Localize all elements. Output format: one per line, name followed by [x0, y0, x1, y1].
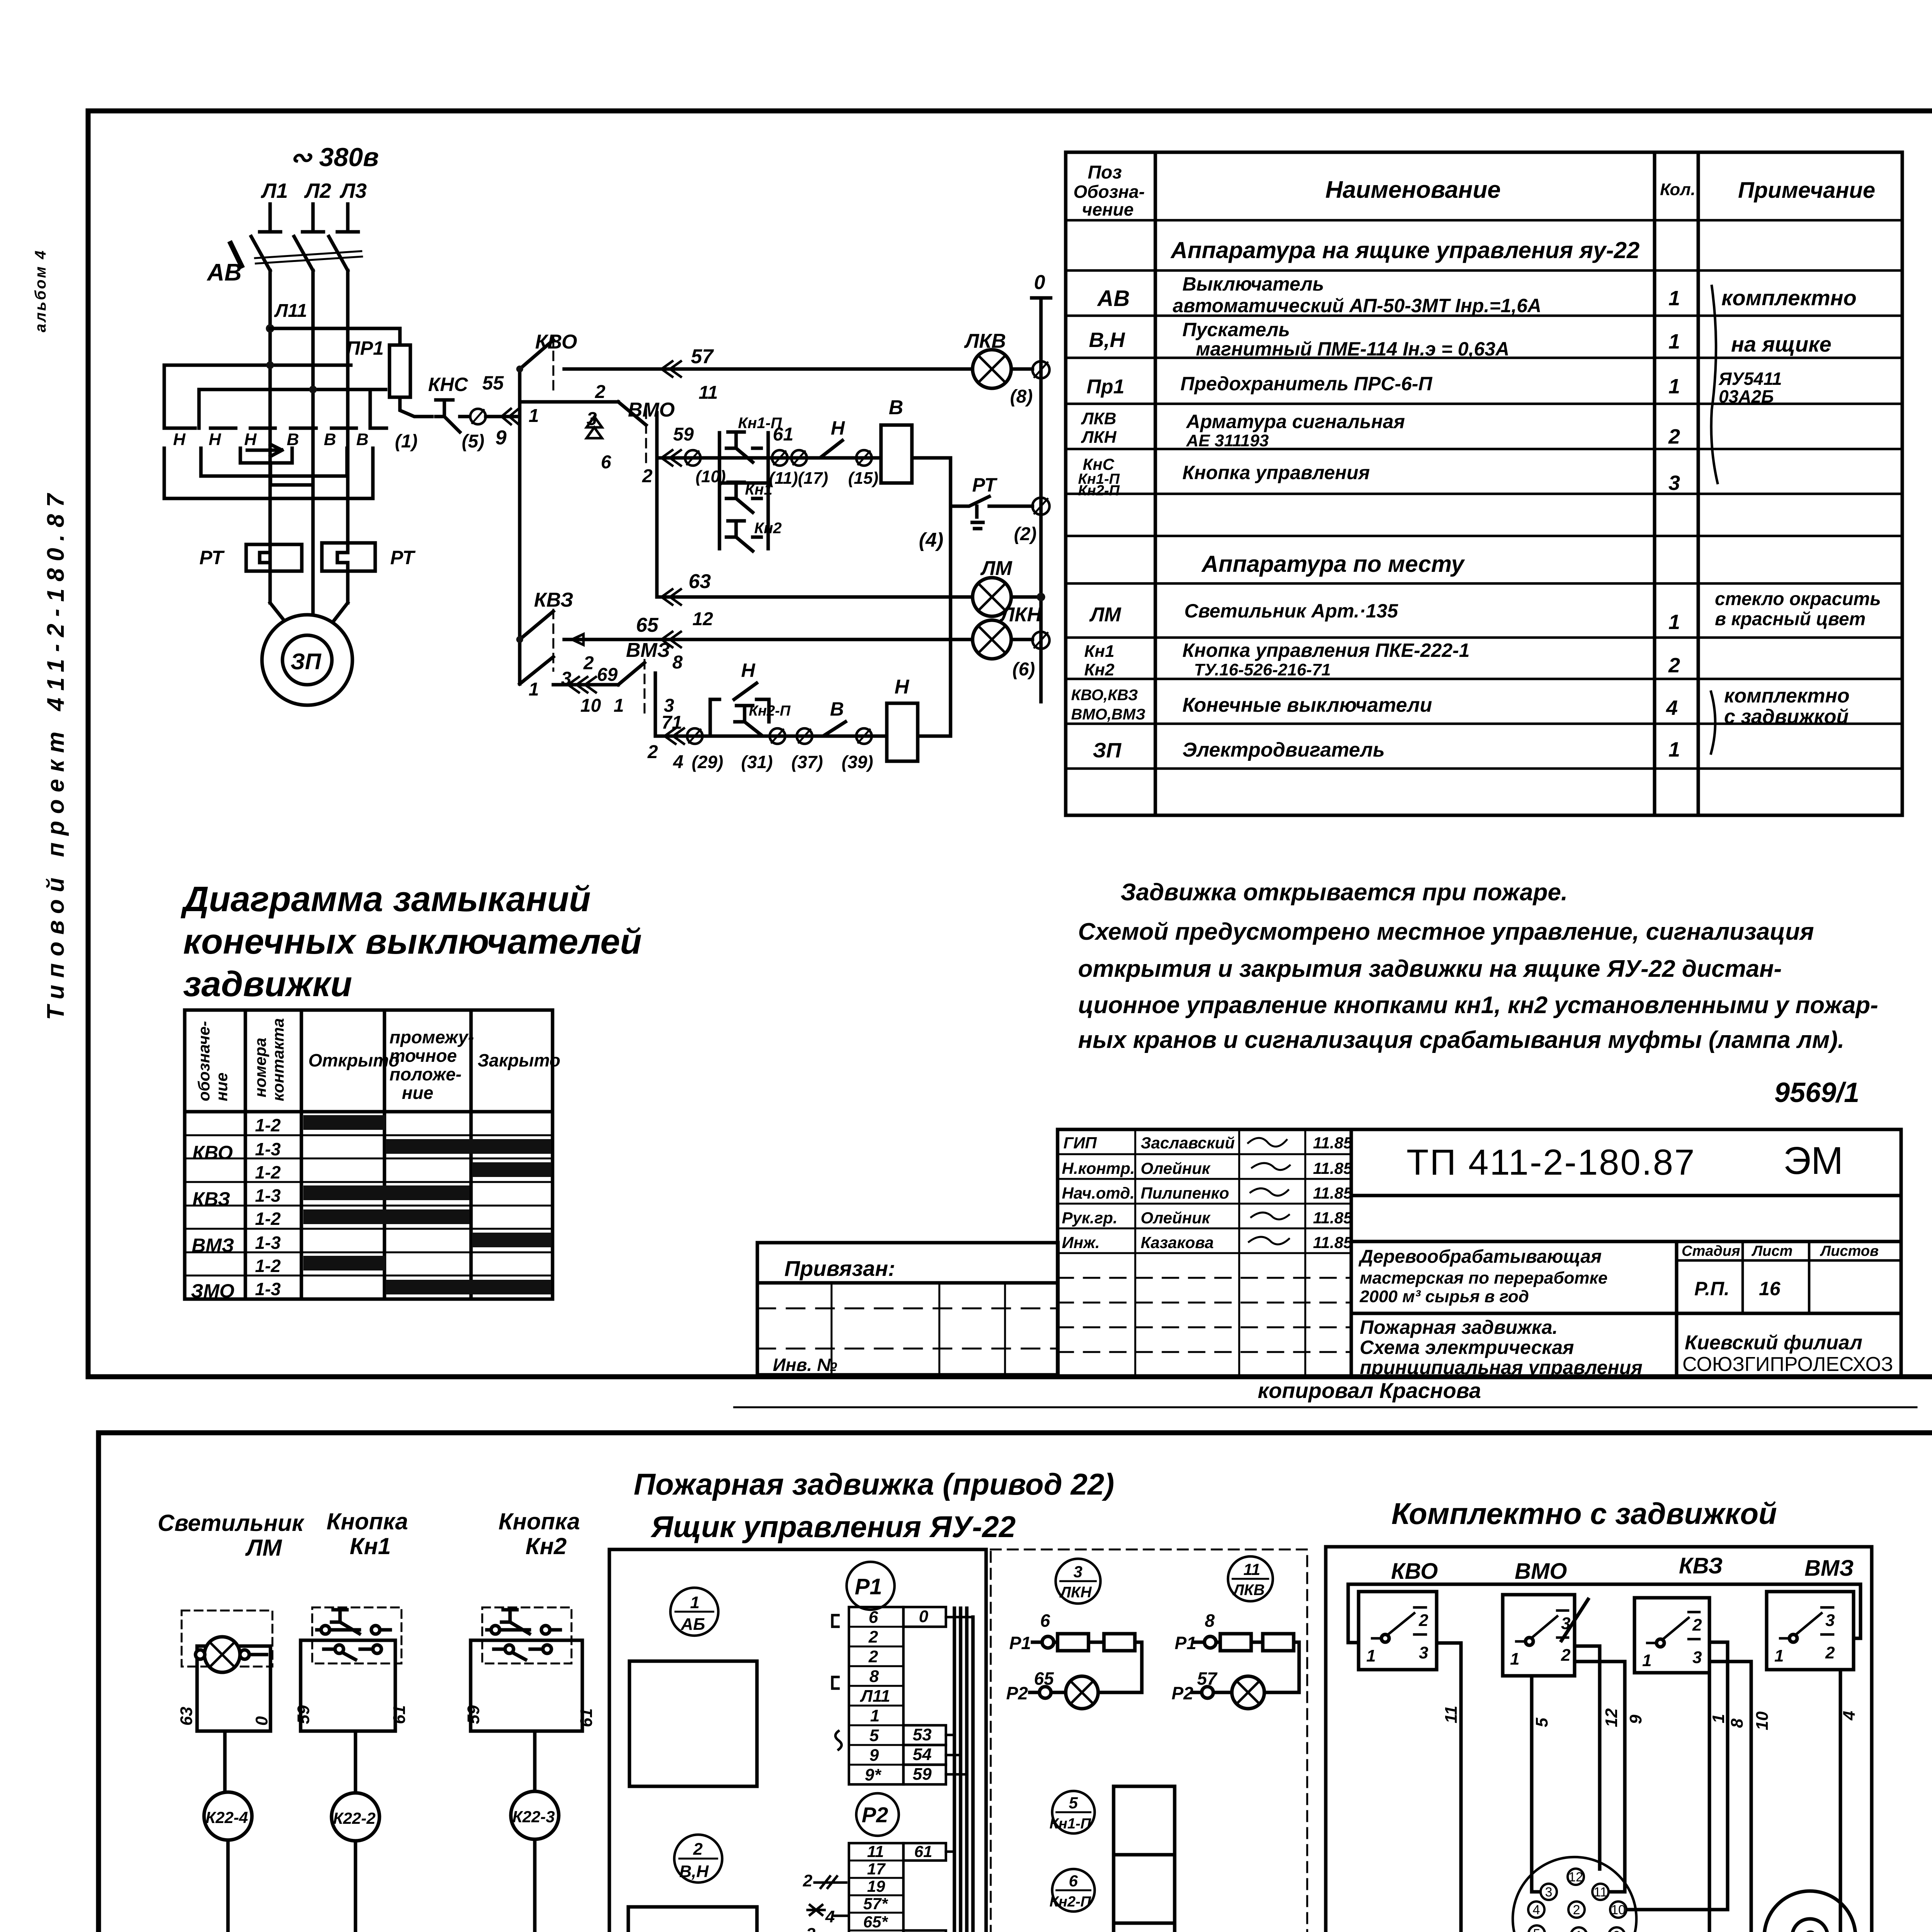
svg-text:ЛМ: ЛМ: [1089, 604, 1122, 626]
svg-text:∾ 380в: ∾ 380в: [290, 143, 379, 172]
svg-text:копировал Краснова: копировал Краснова: [1258, 1378, 1481, 1403]
svg-text:53: 53: [913, 1725, 932, 1744]
svg-text:РТ: РТ: [199, 547, 225, 568]
svg-text:Инж.: Инж.: [1062, 1233, 1100, 1252]
svg-text:Р1: Р1: [1009, 1633, 1031, 1653]
svg-text:альбом 4: альбом 4: [32, 249, 49, 332]
svg-text:57*: 57*: [863, 1895, 888, 1913]
svg-text:Н: Н: [831, 417, 845, 439]
svg-text:К22-3: К22-3: [512, 1808, 555, 1826]
svg-text:71: 71: [914, 1930, 932, 1932]
svg-text:59: 59: [464, 1705, 483, 1724]
svg-text:Пилипенко: Пилипенко: [1141, 1184, 1229, 1202]
svg-text:ние: ние: [402, 1083, 433, 1103]
svg-text:11: 11: [699, 383, 718, 403]
svg-text:ВМЗ: ВМЗ: [1804, 1556, 1854, 1581]
svg-text:63: 63: [177, 1707, 196, 1726]
svg-text:ЛКН: ЛКН: [1081, 428, 1117, 447]
svg-text:4: 4: [673, 752, 684, 772]
svg-text:3: 3: [1692, 1648, 1702, 1667]
svg-text:1: 1: [870, 1706, 879, 1725]
svg-text:К22-4: К22-4: [206, 1808, 248, 1827]
svg-text:Задвижка открывается при: Задвижка открывается при пожаре.: [1121, 879, 1568, 906]
svg-text:Н.контр.: Н.контр.: [1062, 1159, 1135, 1177]
svg-text:1-2: 1-2: [255, 1162, 281, 1182]
svg-text:1-3: 1-3: [255, 1233, 281, 1253]
svg-text:Инв. №: Инв. №: [773, 1355, 837, 1375]
svg-text:Р2: Р2: [862, 1803, 888, 1827]
svg-text:мастерская по переработке: мастерская по переработке: [1360, 1269, 1607, 1287]
svg-text:с задвижкой: с задвижкой: [1724, 706, 1849, 728]
svg-text:17: 17: [867, 1860, 886, 1878]
svg-text:11: 11: [1442, 1706, 1461, 1723]
svg-text:2: 2: [1825, 1643, 1835, 1662]
svg-text:54: 54: [913, 1745, 932, 1764]
svg-text:59: 59: [913, 1765, 932, 1784]
svg-text:9: 9: [1613, 1929, 1621, 1932]
svg-text:ТП 411-2-180.87: ТП 411-2-180.87: [1406, 1142, 1696, 1182]
svg-text:12: 12: [692, 609, 713, 629]
svg-text:Кн2: Кн2: [526, 1533, 567, 1559]
svg-text:2: 2: [647, 742, 658, 762]
svg-text:конечных выключателей: конечных выключателей: [183, 922, 642, 961]
svg-text:Конечные выключатели: Конечные выключатели: [1182, 694, 1432, 716]
svg-text:11.85: 11.85: [1313, 1209, 1353, 1227]
svg-text:в красный цвет: в красный цвет: [1715, 609, 1866, 629]
svg-text:ВМЗ: ВМЗ: [626, 639, 670, 662]
svg-text:ЛКН: ЛКН: [999, 604, 1042, 626]
svg-text:5: 5: [1532, 1718, 1551, 1727]
svg-text:Казакова: Казакова: [1141, 1233, 1214, 1252]
svg-text:10: 10: [1753, 1711, 1772, 1730]
svg-text:Пускатель: Пускатель: [1182, 319, 1290, 340]
svg-text:Н: Н: [173, 430, 186, 449]
svg-text:1: 1: [1709, 1714, 1728, 1723]
svg-text:АВ: АВ: [1097, 286, 1130, 311]
svg-text:Выключатель: Выключатель: [1182, 273, 1324, 295]
svg-text:Киевский филиал: Киевский филиал: [1685, 1332, 1862, 1354]
svg-text:ЛКВ: ЛКВ: [1232, 1582, 1265, 1599]
svg-text:3: 3: [806, 1925, 815, 1932]
svg-text:11: 11: [1243, 1560, 1260, 1578]
svg-text:СОЮЗГИПРОЛЕСХОЗ: СОЮЗГИПРОЛЕСХОЗ: [1682, 1353, 1893, 1376]
svg-text:Поз: Поз: [1088, 162, 1122, 183]
svg-text:8: 8: [672, 652, 683, 673]
svg-text:63: 63: [689, 570, 711, 593]
svg-text:2: 2: [803, 1871, 813, 1890]
svg-text:(31): (31): [741, 752, 773, 772]
svg-text:10: 10: [1611, 1903, 1626, 1917]
svg-text:Деревообрабатывающая: Деревообрабатывающая: [1358, 1247, 1602, 1267]
svg-text:КВО: КВО: [1391, 1559, 1438, 1584]
svg-text:2: 2: [1418, 1611, 1429, 1630]
svg-text:комплектно: комплектно: [1721, 286, 1857, 310]
svg-text:Р1: Р1: [855, 1574, 882, 1599]
svg-text:К22-2: К22-2: [333, 1809, 376, 1827]
svg-text:ЛМ: ЛМ: [980, 557, 1013, 580]
svg-text:Л3: Л3: [339, 179, 367, 202]
svg-text:1: 1: [529, 679, 539, 700]
svg-text:ГИП: ГИП: [1063, 1134, 1097, 1152]
svg-text:Кол.: Кол.: [1660, 180, 1696, 199]
svg-text:контакта: контакта: [269, 1018, 287, 1101]
svg-text:ЗП: ЗП: [291, 649, 321, 674]
svg-text:Кн1: Кн1: [745, 481, 772, 498]
svg-text:2: 2: [595, 382, 605, 402]
svg-text:9569/1: 9569/1: [1774, 1077, 1859, 1108]
svg-text:3: 3: [1545, 1885, 1553, 1900]
svg-text:11.85: 11.85: [1313, 1134, 1353, 1152]
svg-text:0: 0: [919, 1607, 929, 1626]
svg-text:РТ: РТ: [390, 547, 416, 568]
svg-text:В,Н: В,Н: [679, 1862, 709, 1881]
svg-text:3: 3: [1825, 1611, 1835, 1630]
svg-text:2: 2: [1668, 654, 1680, 677]
svg-text:11.85: 11.85: [1313, 1159, 1353, 1177]
svg-text:ЛКВ: ЛКВ: [1081, 409, 1116, 428]
svg-text:ционное управление кнопками: ционное управление кнопками кн1, кн2 уст…: [1078, 992, 1878, 1019]
svg-text:10: 10: [580, 696, 601, 716]
svg-text:Л2: Л2: [304, 179, 331, 202]
svg-text:Р2: Р2: [1172, 1683, 1194, 1703]
svg-text:Н: Н: [741, 660, 755, 681]
svg-text:автоматический АП-50-3МТ Iн: автоматический АП-50-3МТ Iнр.=1,6А: [1173, 295, 1541, 316]
svg-text:1-2: 1-2: [255, 1209, 281, 1229]
svg-text:Р2: Р2: [1006, 1683, 1028, 1703]
svg-text:1: 1: [1668, 330, 1680, 353]
svg-text:4: 4: [825, 1907, 835, 1926]
svg-text:Предохранитель ПРС-6-П: Предохранитель ПРС-6-П: [1180, 373, 1432, 395]
svg-text:2: 2: [642, 466, 653, 486]
svg-text:Олейник: Олейник: [1141, 1209, 1211, 1227]
svg-text:1: 1: [614, 696, 624, 716]
svg-text:59: 59: [673, 424, 694, 445]
svg-text:ЗП: ЗП: [1093, 739, 1122, 762]
svg-text:8: 8: [1205, 1611, 1215, 1631]
svg-text:8: 8: [1728, 1718, 1747, 1728]
svg-text:КВЗ: КВЗ: [192, 1188, 230, 1210]
svg-text:5: 5: [869, 1726, 879, 1745]
svg-text:5: 5: [1069, 1794, 1078, 1812]
svg-text:(6): (6): [1012, 659, 1035, 680]
svg-text:1: 1: [529, 406, 539, 426]
svg-text:ПР1: ПР1: [346, 337, 384, 359]
svg-text:Н: Н: [244, 430, 257, 449]
svg-text:Л1: Л1: [260, 179, 288, 202]
svg-text:РТ: РТ: [972, 474, 998, 496]
svg-text:61: 61: [577, 1708, 596, 1727]
svg-text:(37): (37): [791, 752, 823, 772]
svg-text:обозначе-: обозначе-: [195, 1021, 213, 1101]
svg-text:КВЗ: КВЗ: [1679, 1553, 1723, 1578]
svg-text:61: 61: [914, 1842, 932, 1861]
svg-text:Открыто: Открыто: [308, 1050, 400, 1070]
svg-text:65: 65: [636, 614, 659, 636]
svg-text:12: 12: [1602, 1708, 1621, 1727]
svg-text:ЯУ5411: ЯУ5411: [1718, 369, 1782, 389]
svg-text:11.85: 11.85: [1313, 1233, 1353, 1252]
svg-text:1: 1: [1668, 738, 1680, 761]
svg-text:Стадия: Стадия: [1682, 1243, 1740, 1259]
svg-text:Кнопка управления ПКЕ-222-1: Кнопка управления ПКЕ-222-1: [1182, 639, 1469, 661]
svg-text:11.85: 11.85: [1313, 1184, 1353, 1202]
svg-text:65*: 65*: [863, 1913, 888, 1931]
svg-text:3: 3: [1804, 1927, 1815, 1932]
svg-text:Светильник: Светильник: [158, 1510, 304, 1536]
svg-text:2: 2: [1561, 1646, 1571, 1665]
svg-text:ЛКВ: ЛКВ: [964, 330, 1006, 352]
svg-text:4: 4: [1533, 1903, 1540, 1917]
svg-text:69: 69: [597, 665, 618, 685]
svg-text:1: 1: [690, 1593, 699, 1612]
svg-text:2: 2: [583, 653, 594, 673]
svg-text:1-3: 1-3: [255, 1279, 281, 1299]
svg-text:В,Н: В,Н: [1089, 328, 1125, 352]
svg-text:(2): (2): [1014, 524, 1037, 544]
svg-text:ВМО: ВМО: [1515, 1559, 1567, 1584]
svg-text:Закрыто: Закрыто: [478, 1050, 560, 1070]
svg-text:3: 3: [1668, 471, 1680, 495]
svg-text:Кн1: Кн1: [350, 1533, 391, 1559]
svg-text:ных кранов и сигнализация: ных кранов и сигнализация срабатывания м…: [1078, 1027, 1844, 1053]
svg-text:2: 2: [693, 1840, 703, 1859]
svg-text:ЭМ: ЭМ: [1783, 1139, 1843, 1182]
svg-text:6: 6: [1040, 1611, 1050, 1631]
svg-text:Примечание: Примечание: [1738, 178, 1875, 203]
svg-text:Пожарная задвижка (привод 22): Пожарная задвижка (привод 22): [634, 1467, 1114, 1501]
svg-text:В: В: [830, 698, 844, 720]
svg-text:АЕ 311193: АЕ 311193: [1186, 431, 1269, 450]
svg-text:Диаграмма замыканий: Диаграмма замыканий: [180, 879, 591, 919]
svg-text:1: 1: [1774, 1646, 1784, 1665]
svg-text:промежу-: промежу-: [389, 1027, 474, 1047]
svg-text:Схема электрическая: Схема электрическая: [1360, 1337, 1574, 1358]
svg-text:2000 м³ сырья в год: 2000 м³ сырья в год: [1359, 1287, 1529, 1306]
svg-text:11: 11: [867, 1842, 884, 1861]
svg-text:точное: точное: [389, 1046, 457, 1066]
svg-text:16: 16: [1759, 1278, 1781, 1299]
svg-text:1: 1: [1575, 1929, 1583, 1932]
svg-text:Лист: Лист: [1751, 1243, 1793, 1259]
svg-text:12: 12: [1568, 1870, 1583, 1884]
svg-text:В: В: [324, 430, 336, 449]
svg-text:Комплектно с задвижкой: Комплектно с задвижкой: [1391, 1497, 1777, 1531]
svg-text:Кн2: Кн2: [754, 520, 782, 537]
svg-text:(29): (29): [692, 752, 723, 772]
svg-text:61: 61: [773, 424, 793, 445]
svg-text:ние: ние: [213, 1073, 231, 1101]
svg-text:Пожарная задвижка.: Пожарная задвижка.: [1360, 1316, 1558, 1338]
svg-text:5: 5: [1533, 1927, 1541, 1932]
svg-text:2: 2: [868, 1628, 878, 1646]
svg-text:Кн2-П: Кн2-П: [1049, 1894, 1091, 1910]
svg-text:1-3: 1-3: [255, 1185, 281, 1206]
svg-text:Рук.гр.: Рук.гр.: [1062, 1209, 1117, 1227]
svg-text:Наименование: Наименование: [1325, 177, 1501, 203]
svg-text:на ящике: на ящике: [1731, 332, 1832, 356]
svg-text:1: 1: [1642, 1651, 1651, 1670]
svg-text:1: 1: [1668, 287, 1680, 310]
svg-text:0: 0: [252, 1716, 271, 1726]
svg-text:Кн2-П: Кн2-П: [749, 703, 791, 719]
svg-text:Пр1: Пр1: [1087, 376, 1124, 398]
svg-text:ВМО: ВМО: [628, 399, 675, 421]
svg-text:Л11: Л11: [274, 301, 307, 321]
svg-text:Кн2: Кн2: [1084, 660, 1115, 679]
svg-text:открытия и закрытия задвижк: открытия и закрытия задвижки на ящике ЯУ…: [1078, 956, 1782, 982]
svg-text:9*: 9*: [865, 1765, 881, 1784]
svg-text:Н: Н: [895, 676, 910, 698]
svg-text:положе-: положе-: [389, 1064, 461, 1084]
svg-text:57: 57: [691, 345, 714, 368]
svg-text:1: 1: [1366, 1646, 1376, 1665]
svg-text:9: 9: [1626, 1714, 1645, 1724]
svg-text:Аппаратура по месту: Аппаратура по месту: [1201, 551, 1465, 577]
svg-text:3: 3: [1073, 1563, 1082, 1581]
svg-text:ВМЗ: ВМЗ: [192, 1235, 234, 1256]
svg-text:АБ: АБ: [680, 1615, 705, 1634]
svg-text:(11)(17): (11)(17): [769, 469, 828, 488]
svg-text:Н: Н: [209, 430, 221, 449]
svg-text:Олейник: Олейник: [1141, 1159, 1211, 1177]
svg-text:9: 9: [495, 427, 507, 449]
svg-text:6: 6: [1069, 1872, 1078, 1890]
svg-text:Кн1-П: Кн1-П: [1049, 1816, 1091, 1832]
svg-text:2: 2: [1668, 425, 1680, 448]
svg-text:1: 1: [1668, 375, 1680, 398]
svg-text:Аппаратура на ящике управле: Аппаратура на ящике управления яу-22: [1170, 237, 1639, 263]
svg-text:(5): (5): [462, 431, 485, 452]
svg-text:1: 1: [1510, 1650, 1519, 1668]
svg-text:4: 4: [1840, 1711, 1859, 1721]
svg-text:ЛМ: ЛМ: [245, 1535, 282, 1561]
svg-text:Привязан:: Привязан:: [784, 1256, 895, 1281]
svg-text:3: 3: [1419, 1643, 1428, 1662]
svg-text:В: В: [287, 430, 299, 449]
svg-text:29: 29: [865, 1930, 884, 1932]
svg-text:2: 2: [868, 1647, 878, 1666]
svg-text:номера: номера: [251, 1038, 269, 1097]
svg-text:КнС: КнС: [1083, 455, 1114, 473]
svg-text:9: 9: [869, 1746, 879, 1765]
svg-text:59: 59: [294, 1705, 313, 1724]
svg-text:(8): (8): [1010, 386, 1033, 407]
svg-text:Р.П.: Р.П.: [1694, 1278, 1730, 1299]
svg-text:1: 1: [1668, 611, 1680, 634]
svg-text:Обозна-: Обозна-: [1073, 182, 1145, 202]
svg-text:4: 4: [1666, 696, 1678, 719]
svg-text:стекло окрасить: стекло окрасить: [1715, 589, 1881, 609]
svg-text:ВМО,ВМЗ: ВМО,ВМЗ: [1071, 706, 1145, 723]
svg-text:КВО,КВЗ: КВО,КВЗ: [1071, 687, 1138, 704]
svg-text:магнитный ПМЕ-114 Iн.э = 0,: магнитный ПМЕ-114 Iн.э = 0,63А: [1196, 338, 1509, 360]
svg-text:6: 6: [869, 1608, 878, 1627]
svg-text:(15): (15): [848, 469, 878, 488]
svg-text:Кнопка: Кнопка: [498, 1509, 580, 1534]
svg-text:Заславский: Заславский: [1141, 1134, 1235, 1152]
svg-text:ЛКН: ЛКН: [1059, 1584, 1092, 1601]
svg-text:АВ: АВ: [206, 259, 242, 286]
svg-text:Кнопка управления: Кнопка управления: [1182, 462, 1370, 483]
svg-text:КВО: КВО: [192, 1142, 233, 1163]
svg-text:(39): (39): [842, 752, 873, 772]
svg-text:1-2: 1-2: [255, 1256, 281, 1276]
svg-text:Листов: Листов: [1820, 1243, 1879, 1259]
svg-text:Электродвигатель: Электродвигатель: [1182, 739, 1385, 761]
svg-text:Нач.отд.: Нач.отд.: [1062, 1184, 1134, 1202]
svg-text:2: 2: [1573, 1903, 1580, 1917]
svg-text:03А2Б: 03А2Б: [1719, 386, 1774, 406]
svg-text:Кн1: Кн1: [1084, 642, 1114, 661]
svg-text:8: 8: [869, 1667, 879, 1686]
svg-text:61: 61: [390, 1705, 409, 1724]
svg-text:Л11: Л11: [860, 1687, 890, 1706]
svg-text:ЗМО: ЗМО: [191, 1280, 235, 1302]
svg-text:11: 11: [1594, 1885, 1607, 1900]
svg-text:(4): (4): [919, 529, 944, 551]
svg-text:задвижки: задвижки: [183, 964, 352, 1004]
svg-text:(1): (1): [395, 431, 418, 452]
svg-text:В: В: [889, 396, 903, 419]
svg-text:1-2: 1-2: [255, 1115, 281, 1135]
svg-text:КВЗ: КВЗ: [534, 589, 573, 611]
svg-text:комплектно: комплектно: [1724, 685, 1850, 707]
svg-text:КНС: КНС: [428, 374, 468, 395]
svg-text:1-3: 1-3: [255, 1139, 281, 1159]
svg-text:Арматура сигнальная: Арматура сигнальная: [1185, 411, 1405, 432]
svg-text:Типовой проект 411-2-180.87: Типовой проект 411-2-180.87: [43, 487, 69, 1020]
svg-text:2: 2: [1692, 1616, 1702, 1634]
svg-text:Кн2-П: Кн2-П: [1078, 483, 1120, 499]
svg-text:6: 6: [601, 452, 611, 473]
svg-text:принципиальная управления: принципиальная управления: [1360, 1357, 1643, 1378]
svg-text:чение: чение: [1082, 199, 1134, 219]
svg-text:Кнопка: Кнопка: [327, 1509, 408, 1534]
svg-text:В: В: [356, 430, 369, 449]
svg-text:ТУ.16-526-216-71: ТУ.16-526-216-71: [1194, 660, 1331, 679]
svg-text:0: 0: [1034, 271, 1045, 294]
svg-text:Схемой предусмотрено местно: Схемой предусмотрено местное управление,…: [1078, 918, 1814, 945]
svg-text:Ящик управления ЯУ-22: Ящик управления ЯУ-22: [650, 1510, 1015, 1544]
svg-text:55: 55: [482, 372, 504, 394]
svg-text:19: 19: [867, 1877, 885, 1895]
svg-text:Светильник Арт.·135: Светильник Арт.·135: [1184, 600, 1398, 622]
